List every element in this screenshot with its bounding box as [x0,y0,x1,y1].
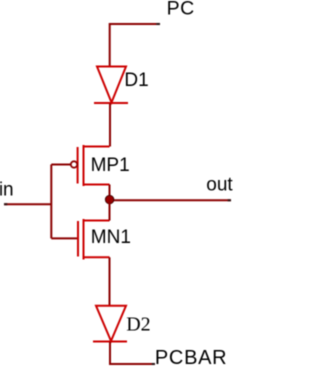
svg-text:PCBAR: PCBAR [155,347,227,369]
svg-text:out: out [206,175,233,196]
pin tip in wire [4,203,8,205]
transistor MN1 (NMOS) [78,219,110,260]
pin tip out wire [228,199,232,201]
svg-text:MP1: MP1 [91,155,130,176]
svg-text:PC: PC [167,0,195,20]
svg-text:D2: D2 [126,313,150,335]
junction node out [105,195,113,203]
pin tip PC wire [156,23,160,25]
svg-text:in: in [0,179,14,200]
wire MN1 source to D2 [109,257,111,306]
wire out node to MN1 drain [109,200,111,220]
wire MP1 drain to out node [109,185,111,201]
wire D2 to PCBAR net [110,342,155,364]
transistor MP1 (PMOS) [78,145,110,186]
gate bubble MP1 [71,161,77,167]
wire to MN1 gate [51,237,77,239]
diode D2 [93,306,127,342]
wire out net [110,199,232,201]
svg-text:D1: D1 [124,70,148,91]
svg-text:MN1: MN1 [91,227,131,248]
wire D1 to MP1 source [109,104,111,147]
wire gate connector vertical [50,165,52,239]
pin tip PCBAR wire [152,363,156,365]
wire PC net [110,24,160,67]
wire in net [4,203,51,205]
diode D1 [94,67,128,104]
wire to MP1 gate [51,164,70,166]
